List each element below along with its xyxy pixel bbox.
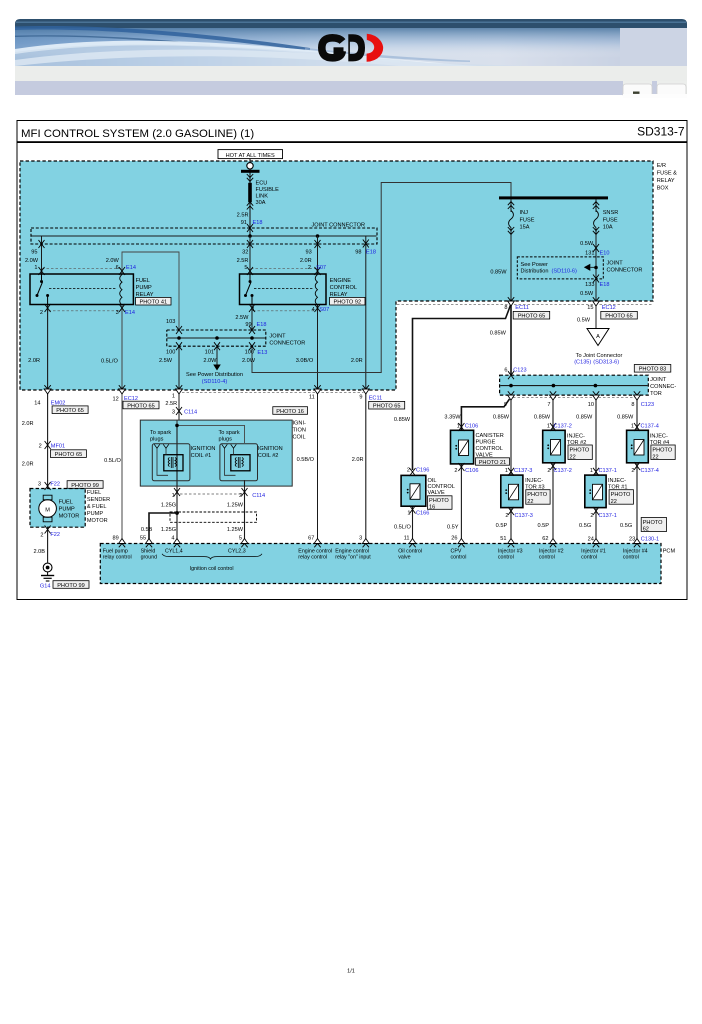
chevron FP relay pin1 [39,267,45,275]
svg-text:7: 7 [547,402,550,408]
wire: fuel pump relay pin3 down to PCM 89 [121,305,123,544]
fuse holder bar [241,170,260,173]
engine control relay link dashed [254,288,313,290]
svg-text:A: A [596,334,600,340]
wire: ignition coil primary 1 down to PCM 4 [176,420,178,543]
chevron 131 E10 [593,244,599,252]
chevron PCM 23 [634,539,641,548]
header banner group [15,19,687,98]
svg-text:2.0R: 2.0R [352,457,364,463]
light area right of periwinkle [623,81,652,95]
canister purge valve symbol [455,440,468,456]
periwinkle sliver between tabs [652,81,657,95]
node on SNSR wire at joint connector E10 [594,266,598,270]
svg-text:EC11: EC11 [369,396,383,402]
svg-text:99: 99 [245,322,251,328]
svg-text:2: 2 [239,493,242,499]
svg-text:Distribution: Distribution [521,269,549,275]
svg-text:0.5B/O: 0.5B/O [297,457,315,463]
svg-text:2: 2 [454,468,457,474]
svg-text:PHOTO 65: PHOTO 65 [56,408,84,414]
chevron small JC out 101 [214,342,220,350]
GDS logo G crossbar [334,47,344,54]
svg-text:23: 23 [629,536,635,542]
svg-text:PHOTO 92: PHOTO 92 [334,300,362,306]
svg-text:93: 93 [305,250,311,256]
svg-text:2.0R: 2.0R [351,358,363,364]
chevron F22 pin2 [45,526,51,534]
chevron 6 C123 [508,371,514,379]
ignition coil cyan box [140,420,292,486]
svg-text:3: 3 [38,482,41,488]
injector2 box [543,430,565,463]
photo 62 box [641,518,666,533]
svg-text:95: 95 [31,250,37,256]
svg-text:Engine controlrelay "on" input: Engine controlrelay "on" input [335,548,371,560]
white area below tabs [623,94,687,98]
wire: fuel pump relay pin2 down to fuel pump [47,305,49,563]
svg-text:0.85W: 0.85W [534,415,551,421]
svg-text:C106: C106 [465,423,478,429]
svg-text:E10: E10 [600,250,610,256]
svg-text:INJEC-TOR #2: INJEC-TOR #2 [567,433,586,446]
injector1 box [585,475,606,508]
svg-text:PHOTO 16: PHOTO 16 [276,409,304,415]
title separator line [17,141,687,143]
fuel pump relay link dashed [49,288,117,290]
svg-text:2.0W: 2.0W [106,258,120,264]
wire: C123 pin7 down injector2 to PCM 62 [552,395,554,543]
wire: fuel pump relay pin6 loop to joint connector 103 [122,252,179,330]
chevron INJ4 pin2 [634,462,640,470]
wave streak dark left [15,26,310,51]
svg-text:8: 8 [631,402,634,408]
svg-text:1.25W: 1.25W [227,502,244,508]
see power distribution dashed box [517,257,603,279]
svg-text:14: 14 [34,401,40,407]
chevron PCM 24 [593,539,600,548]
svg-text:9: 9 [359,395,362,401]
to spark plugs chevrons unit2 [222,444,237,448]
canister purge control valve box [451,430,474,464]
fusible link bar [248,183,252,203]
svg-text:C166: C166 [416,511,429,517]
chevron fusible link top [247,174,253,181]
chevron PCM 26 [458,539,465,548]
chevron INJ3 pin1 [508,468,514,476]
svg-text:5: 5 [244,265,247,271]
motor brush top [43,495,52,500]
svg-text:C137-3: C137-3 [514,468,532,474]
triangle A to joint connector [587,329,609,346]
svg-text:4: 4 [171,535,174,541]
chevron INJ1 pin2 [593,507,599,515]
engine control relay contact [244,274,254,305]
svg-text:91: 91 [241,220,247,226]
svg-text:(C135): (C135) [574,360,591,366]
svg-text:100: 100 [166,349,175,355]
wire: bus to engine control relay coil pin2 [317,236,319,274]
chevron CPV pin1 [458,423,464,431]
svg-text:C137-4: C137-4 [641,423,659,429]
node C123 bus 1 [509,384,513,388]
svg-text:133: 133 [585,282,594,288]
svg-text:1.25W: 1.25W [227,527,244,533]
photo 16 box ocv [428,496,453,511]
connector pin dashes ECR top S07 [251,268,317,270]
wire: bus end down to EC11 pin9 [365,236,367,389]
svg-text:E14: E14 [126,265,136,271]
injector4 symbol [631,440,644,456]
chevron exit 14 EM02 [44,385,51,394]
battery node circle [247,163,253,169]
chevron E18 91 [247,224,253,232]
wire: shield drain to PCM 55 [149,513,177,544]
svg-text:See Power: See Power [521,262,548,268]
svg-text:15: 15 [587,305,593,311]
wire: canister purge valve to PCM 26 [460,464,462,544]
svg-text:55: 55 [140,535,146,541]
chevron OCV pin2 [410,468,416,476]
chevron INJ4 pin1 [634,423,640,431]
svg-text:See Power Distribution: See Power Distribution [186,372,243,378]
connector pin dashes ECR bottom S07 [253,310,317,312]
svg-text:98: 98 [355,250,361,256]
white tab 2 [657,84,686,95]
svg-text:JOINT CONNECTOR: JOINT CONNECTOR [312,223,366,229]
photo 22 box injector2 [568,445,592,460]
chevron exit 11 [314,385,321,394]
svg-text:1: 1 [457,423,460,429]
joint connector dashed box upper [31,228,377,244]
svg-text:MF01: MF01 [51,443,65,449]
svg-text:C114: C114 [252,493,265,499]
engine control relay box [240,274,327,305]
ground symbol G14 [41,563,54,581]
svg-text:1/1: 1/1 [347,969,355,975]
svg-text:C196: C196 [416,468,429,474]
chevron exit 12 EC12 [119,385,126,394]
chevron PCM 51 [508,539,515,548]
ignition coil control brace [162,554,262,559]
ignition coil unit1 hv leads [157,448,168,475]
fuel pump relay coil [120,275,122,305]
svg-text:C123: C123 [641,402,654,408]
wave streak dark fading right [305,48,470,62]
chevron exit 15 EC12 [593,297,600,306]
chevron INJ2 pin1 [550,423,556,431]
fuel pump relay contact [36,274,50,305]
GDS logo red S swoosh [367,34,384,62]
wire: joint connector 100 down to C114 pin3 and ignition coil [178,346,180,420]
node C123 bus 2 [552,384,556,388]
oil control valve box [401,475,426,506]
connector pin dashes below C123 strip [513,397,635,399]
chevron FP relay pin3 [119,304,125,312]
svg-text:S07: S07 [319,307,329,313]
svg-text:2.5W: 2.5W [235,315,249,321]
svg-text:Fuel pumprelay control: Fuel pumprelay control [103,548,132,560]
node shield junction [175,511,179,515]
wave gradient panel [15,28,620,66]
engine control relay coil [315,275,317,305]
svg-text:C114: C114 [184,409,197,415]
oil control valve symbol [407,484,420,500]
svg-text:0.5P: 0.5P [496,523,508,529]
svg-text:10: 10 [588,402,594,408]
chevron C114 pin2 [242,488,248,496]
wire: C123 pin10 down injector1 to PCM 24 [595,395,597,543]
svg-text:89: 89 [112,536,118,542]
svg-text:Shieldground: Shieldground [141,548,158,560]
svg-text:C137-2: C137-2 [554,468,572,474]
chevron PCM 89 [119,539,126,548]
INJ fuse element [509,211,514,228]
wire: ignition coil inside riser [177,420,245,443]
svg-text:6: 6 [116,265,119,271]
svg-text:PHOTO 65: PHOTO 65 [55,452,83,458]
chevron PCM 67 [314,539,321,548]
chevron PCM 4 [174,539,181,548]
svg-text:1: 1 [172,493,175,499]
wire: bus to fuel pump relay pin1 [41,236,43,274]
ignition coil unit2 inner transformer [231,455,250,471]
navy top bar [15,19,687,29]
svg-text:3: 3 [172,409,175,415]
svg-text:PHOTO 41: PHOTO 41 [140,300,168,306]
svg-text:3.0B/O: 3.0B/O [296,358,314,364]
injector4 box [627,430,649,463]
svg-text:(SD313-6): (SD313-6) [593,360,619,366]
wire: fusible link feed [249,159,251,237]
joint connector bus lower small [167,337,265,339]
svg-text:32: 32 [242,250,248,256]
svg-text:3.35W: 3.35W [444,415,461,421]
svg-text:C137-1: C137-1 [599,468,617,474]
SNSR fuse element [594,211,599,228]
photo 92 box [330,297,365,305]
wire: EC11 pin8 to C123 joint connector thick [510,304,512,376]
svg-text:2: 2 [631,468,634,474]
svg-text:1: 1 [590,468,593,474]
chevron fusible link bottom [247,202,253,209]
chevron exit 8 EC11 [508,297,515,306]
svg-text:2.0W: 2.0W [242,358,256,364]
chevron exit 9 EC11 [362,385,369,394]
svg-text:103: 103 [166,319,175,325]
svg-text:2.0R: 2.0R [22,421,34,427]
svg-text:0.5W: 0.5W [580,291,594,297]
E/R fuse and relay box cyan region [20,161,653,390]
svg-text:2.5R: 2.5R [237,213,249,219]
chevron C114 pin3 [176,407,182,415]
chevron small JC in 103 [176,326,182,334]
svg-text:5: 5 [239,535,242,541]
fuel pump motor circle [39,500,57,518]
svg-text:100: 100 [245,349,254,355]
power distribution arrow [213,365,221,371]
joint connector C123 cyan strip [500,375,649,395]
svg-text:E18: E18 [600,282,610,288]
tab minimize dash [633,92,640,94]
svg-text:CYL2,3: CYL2,3 [228,548,246,554]
svg-text:6: 6 [504,367,507,373]
wire: oil control valve to PCM 11 [412,506,414,543]
svg-text:11: 11 [404,535,410,541]
main diagram frame [17,121,687,600]
chevron F22 pin3 [45,482,51,490]
connector pin dashes below cyan exits [182,391,364,393]
svg-text:EC12: EC12 [602,305,616,311]
svg-text:1.25G: 1.25G [161,527,176,533]
svg-text:To Joint Connector: To Joint Connector [576,353,623,359]
outer border box [17,121,687,600]
chevron small JC in 99 [249,326,255,334]
svg-text:INJEC-TOR #3: INJEC-TOR #3 [525,478,544,491]
GDS logo letter D [348,34,365,61]
svg-text:C137-3: C137-3 [515,513,533,519]
svg-text:PCM: PCM [663,549,676,555]
chevron ECR pin1 [249,304,255,312]
svg-text:2: 2 [40,310,43,316]
svg-text:0.85W: 0.85W [576,415,593,421]
to spark plugs chevrons unit1 [154,444,169,448]
photo 41 box [136,297,171,305]
svg-text:E14: E14 [125,310,135,316]
svg-text:62: 62 [542,536,548,542]
wave top shade [15,28,620,58]
fuel pump motor cyan box [30,489,85,528]
svg-text:3: 3 [116,310,119,316]
svg-text:F22: F22 [50,532,60,538]
svg-text:2: 2 [407,468,410,474]
svg-text:131: 131 [585,250,594,256]
wire: SNSR fuse circuit down to EC12 pin15 and triangle A [595,199,597,328]
svg-text:12: 12 [112,396,118,402]
svg-text:2.0R: 2.0R [28,358,40,364]
wire: ignition coil primary 2 down to PCM 5 [244,480,246,544]
svg-text:S07: S07 [316,265,326,271]
svg-text:PHOTO 99: PHOTO 99 [57,583,85,589]
svg-text:PHOTO 99: PHOTO 99 [71,483,99,489]
photo 16 box ignition [273,407,308,415]
svg-text:2.5W: 2.5W [159,358,173,364]
chevron ECR pin4 [315,304,321,312]
chevron C123 out 8 [634,391,641,400]
node small bus 1 [177,336,181,340]
chevron SNSR fuse bottom [593,227,599,234]
svg-text:0.5L/O: 0.5L/O [101,359,118,365]
chevron 133 E18 [593,275,599,283]
svg-text:26: 26 [451,535,457,541]
svg-text:11: 11 [309,395,315,401]
svg-text:0.5L/O: 0.5L/O [104,458,121,464]
wave streak light 1 [15,41,400,63]
svg-text:1: 1 [172,393,175,399]
svg-text:1: 1 [407,511,410,517]
svg-text:2: 2 [39,444,42,450]
fuse bus bar [499,196,608,199]
chevron INJ3 pin2 [508,507,514,515]
svg-text:0.5P: 0.5P [537,523,549,529]
shield dashed box [170,512,257,522]
svg-text:24: 24 [588,536,594,542]
svg-text:0.5W: 0.5W [580,241,594,247]
photo 22 box injector4 [651,445,675,460]
chevron small JC out 100b [249,342,255,350]
svg-text:2: 2 [547,468,550,474]
svg-text:HOT AT ALL TIMES: HOT AT ALL TIMES [226,153,275,159]
svg-text:1.25G: 1.25G [161,502,176,508]
svg-text:3: 3 [359,536,362,542]
chevron PCM 55 [146,539,153,548]
periwinkle strip [15,81,623,95]
wave streak dark thin upper [15,35,210,46]
injector3 symbol [505,484,518,500]
wire: C123 pin9 down injector3 to PCM 51 [510,395,512,543]
svg-text:E18: E18 [253,220,263,226]
node C123 bus 3 [594,384,598,388]
chevron JC out left 95 [39,240,45,248]
chevron PCM 11 [409,539,416,548]
chevron JC out 32 [247,240,253,248]
chevron SNSR fuse top [593,202,599,209]
wire: feed loop joint connector 100 to fuse bus bar [252,183,511,373]
chevron PCM 5 [241,539,248,548]
navy bar inner highlight [16,22,686,24]
svg-text:C130-1: C130-1 [641,536,659,542]
svg-text:E13: E13 [257,350,267,356]
svg-text:0.85W: 0.85W [490,330,507,336]
svg-text:2: 2 [308,265,311,271]
chevron FP relay pin2 [45,304,51,312]
svg-text:PHOTO 21: PHOTO 21 [479,460,507,466]
PCM cyan region [100,544,661,584]
wire: engine control relay pin1 to joint connector 99 [251,305,253,331]
gray toolbar strip [15,66,687,81]
photo 22 box injector3 [526,490,550,505]
svg-text:1: 1 [505,468,508,474]
chevron PCM 62 [550,539,557,548]
node on bus at feed [248,234,252,238]
chevron exit 1 [176,385,183,394]
svg-text:E18: E18 [257,322,267,328]
svg-text:2.0R: 2.0R [300,258,312,264]
wire: joint connector 101 stub [216,346,218,365]
svg-text:2.5R: 2.5R [165,401,177,407]
joint connector bus upper [32,235,377,237]
svg-text:PHOTO 65: PHOTO 65 [518,314,546,320]
chevron C114 pin1 [174,488,180,496]
chevron C123 out 10 [593,391,600,400]
chevron C123 out 9 [508,391,515,400]
svg-text:M: M [45,507,50,513]
chevron ECR pin5 [247,267,253,275]
motor brush bottom [43,517,52,522]
wire: C123 pin8 down injector4 to PCM 23 [636,395,638,543]
svg-text:101: 101 [205,349,214,355]
chevron FP relay pin6 [119,267,125,275]
ignition coil unit1 outer [152,444,190,481]
svg-text:8: 8 [504,305,507,311]
chevron JC out 98 [363,240,369,248]
svg-text:IGNI-TIONCOIL: IGNI-TIONCOIL [293,421,306,441]
chevron OCV pin1 [410,506,416,514]
chevron MF01 [45,441,51,449]
photo 22 box injector1 [609,490,633,505]
svg-text:2: 2 [40,532,43,538]
svg-text:SD313-7: SD313-7 [637,125,685,139]
